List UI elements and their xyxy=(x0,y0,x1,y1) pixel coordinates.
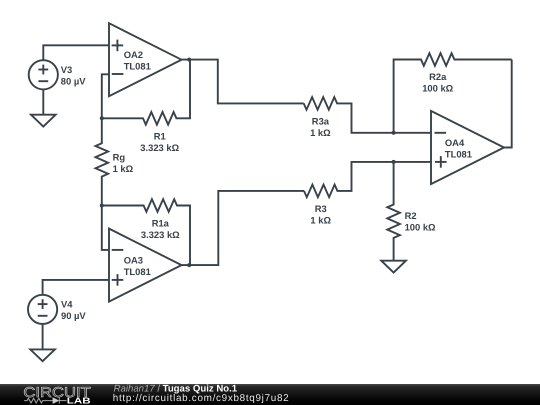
svg-text:V3: V3 xyxy=(61,64,72,75)
svg-text:TL081: TL081 xyxy=(445,148,472,159)
svg-text:TL081: TL081 xyxy=(124,266,151,277)
svg-text:1 kΩ: 1 kΩ xyxy=(113,163,134,174)
svg-text:TL081: TL081 xyxy=(124,60,151,71)
svg-text:1 kΩ: 1 kΩ xyxy=(310,215,331,226)
svg-text:100 kΩ: 100 kΩ xyxy=(405,222,436,233)
svg-text:OA3: OA3 xyxy=(124,254,143,265)
svg-text:R2a: R2a xyxy=(429,71,447,82)
svg-text:R3: R3 xyxy=(315,203,327,214)
svg-text:OA2: OA2 xyxy=(124,49,143,60)
svg-text:V4: V4 xyxy=(61,298,73,309)
svg-text:3.323 kΩ: 3.323 kΩ xyxy=(141,229,180,240)
svg-text:R1a: R1a xyxy=(152,218,170,229)
svg-text:90 µV: 90 µV xyxy=(61,310,86,321)
svg-text:Rg: Rg xyxy=(113,151,126,162)
svg-text:3.323 kΩ: 3.323 kΩ xyxy=(140,142,179,153)
svg-text:1 kΩ: 1 kΩ xyxy=(310,127,331,138)
svg-text:OA4: OA4 xyxy=(445,137,465,148)
svg-text:100 kΩ: 100 kΩ xyxy=(422,82,453,93)
svg-text:LAB: LAB xyxy=(67,396,91,405)
svg-text:R2: R2 xyxy=(405,210,417,221)
svg-text:R1: R1 xyxy=(154,131,166,142)
svg-text:http://circuitlab.com/c9xb8tq9: http://circuitlab.com/c9xb8tq9j7u82 xyxy=(113,393,290,404)
svg-text:80 µV: 80 µV xyxy=(61,75,86,86)
svg-text:R3a: R3a xyxy=(312,116,330,127)
